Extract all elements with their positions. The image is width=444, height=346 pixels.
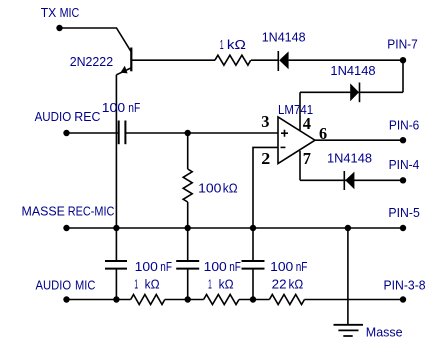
capacitor C3 100 nF top plate: [176, 260, 199, 262]
node AUDIO MIC: [63, 296, 69, 302]
svg-text:6: 6: [319, 124, 327, 143]
svg-text:PIN-5: PIN-5: [388, 205, 419, 220]
op-amp U1 LM741 triangle: [278, 117, 315, 164]
svg-text:TX: TX: [41, 5, 57, 20]
junction bottom cap4: [250, 296, 256, 302]
wire op-amp output to PIN-6: [315, 139, 403, 141]
node TX MIC: [56, 25, 62, 31]
svg-text:kΩ: kΩ: [289, 276, 304, 291]
capacitor C2 100 nF bottom plate: [105, 268, 127, 270]
wire R5 to PIN-3-8: [304, 299, 403, 301]
capacitor C3 100 nF bottom plate: [176, 268, 199, 270]
capacitor C4 100 nF top plate: [242, 260, 265, 262]
svg-text:AUDIO: AUDIO: [35, 109, 72, 124]
transistor Q1 collector wire: [131, 59, 215, 61]
node AUDIO REC: [63, 130, 69, 136]
svg-text:kΩ: kΩ: [227, 37, 246, 52]
svg-text:1N4148: 1N4148: [330, 63, 375, 78]
wire minus input jog: [253, 147, 278, 261]
wire PIN-7 down: [402, 60, 404, 92]
svg-text:MASSE: MASSE: [22, 203, 66, 218]
op-amp plus sign: [281, 130, 288, 137]
junction masse 100k column: [185, 225, 191, 231]
svg-text:PIN-7: PIN-7: [387, 36, 418, 51]
node MASSE REC-MIC: [63, 225, 69, 231]
svg-text:nF: nF: [160, 259, 172, 274]
svg-text:REC-MIC: REC-MIC: [68, 203, 115, 218]
wire masse row: [67, 227, 404, 229]
capacitor C2 100 nF top plate: [105, 260, 127, 262]
wire cap3 column: [187, 228, 189, 300]
op-amp minus sign: [281, 146, 286, 148]
junction masse ground column: [345, 225, 351, 231]
wire pin 7 row to PIN-4: [300, 179, 403, 181]
wire pin 4 vertical: [299, 92, 301, 130]
junction bottom cap2: [113, 296, 119, 302]
svg-text:4: 4: [303, 114, 312, 133]
diode D1 1N4148 triangle: [279, 51, 288, 69]
transistor Q1 2N2222 base bar: [130, 48, 132, 72]
junction bottom cap3: [185, 296, 191, 302]
svg-text:nF: nF: [128, 100, 140, 115]
svg-text:Masse: Masse: [366, 324, 403, 339]
capacitor C1 100 nF right plate: [124, 121, 126, 145]
capacitor C1 100 nF left plate: [118, 121, 120, 145]
svg-text:3: 3: [261, 112, 269, 131]
junction masse pin2 column: [250, 225, 256, 231]
diode D1 1N4148 cathode bar: [277, 51, 279, 71]
svg-text:1: 1: [208, 276, 212, 291]
svg-text:100: 100: [102, 100, 125, 115]
wire diode to PIN-7: [289, 59, 403, 61]
diode D3 1N4148 triangle: [345, 172, 354, 190]
svg-text:7: 7: [303, 149, 312, 168]
svg-text:AUDIO: AUDIO: [36, 278, 72, 293]
svg-text:MIC: MIC: [60, 5, 80, 20]
svg-text:nF: nF: [296, 259, 308, 274]
svg-text:100: 100: [198, 181, 221, 196]
wire R4 to junction: [239, 299, 269, 301]
wire AUDIO REC to capacitor: [67, 132, 119, 134]
wire audio mic row left: [67, 299, 131, 301]
wire pin 7 vertical: [299, 151, 301, 181]
resistor R5 22 kOhm zigzag: [269, 295, 304, 305]
svg-text:100: 100: [204, 259, 227, 274]
junction masse emitter column: [113, 225, 119, 231]
svg-text:REC: REC: [74, 109, 100, 124]
svg-text:1: 1: [134, 276, 138, 291]
node PIN-6: [400, 137, 406, 143]
node PIN-3-8: [400, 296, 406, 302]
resistor R2 100 kOhm zigzag: [183, 169, 192, 202]
svg-text:1N4148: 1N4148: [262, 30, 306, 45]
wire emitter down: [115, 75, 117, 261]
svg-text:PIN-4: PIN-4: [389, 157, 420, 172]
wire cap4 bottom: [252, 269, 254, 300]
svg-text:MIC: MIC: [75, 278, 95, 293]
resistor R3 1 kOhm zigzag: [131, 295, 165, 305]
transistor Q1 emitter arrow: [120, 66, 127, 74]
wire capacitor to op-amp plus input: [125, 132, 278, 134]
diode D2 1N4148 triangle: [350, 83, 359, 101]
wire cap2 bottom: [115, 269, 117, 300]
svg-text:kΩ: kΩ: [223, 181, 238, 196]
svg-text:22: 22: [272, 276, 287, 291]
svg-text:100: 100: [135, 259, 158, 274]
svg-text:PIN-6: PIN-6: [389, 118, 419, 133]
diode D3 1N4148 cathode bar: [343, 171, 345, 190]
svg-text:1: 1: [220, 37, 224, 52]
resistor R1 1 kOhm top zigzag: [215, 55, 251, 65]
svg-text:100: 100: [270, 259, 293, 274]
node junction plus input: [185, 130, 191, 136]
resistor R4 1 kOhm zigzag: [204, 295, 239, 305]
wire diode row 2: [300, 91, 403, 93]
wire R3 to junction: [165, 299, 204, 301]
capacitor C4 100 nF bottom plate: [242, 268, 265, 270]
svg-text:2N2222: 2N2222: [70, 54, 113, 69]
node PIN-5: [400, 225, 406, 231]
node PIN-7: [400, 57, 406, 63]
node PIN-4: [400, 177, 406, 183]
transistor Q1 emitter: [116, 68, 131, 75]
wire TX MIC to base: [60, 28, 132, 52]
svg-text:PIN-3-8: PIN-3-8: [384, 277, 426, 292]
wire ground vertical: [347, 228, 349, 325]
svg-text:1N4148: 1N4148: [327, 150, 372, 165]
diode D2 1N4148 cathode bar: [359, 83, 361, 103]
wire junction down to resistor: [187, 133, 189, 169]
wire resistor to diode: [251, 59, 278, 61]
svg-text:2: 2: [261, 149, 270, 168]
svg-text:nF: nF: [229, 259, 241, 274]
svg-text:kΩ: kΩ: [219, 276, 234, 291]
svg-text:kΩ: kΩ: [145, 276, 160, 291]
wire resistor to masse row: [187, 202, 189, 228]
ground symbol: [334, 325, 364, 336]
